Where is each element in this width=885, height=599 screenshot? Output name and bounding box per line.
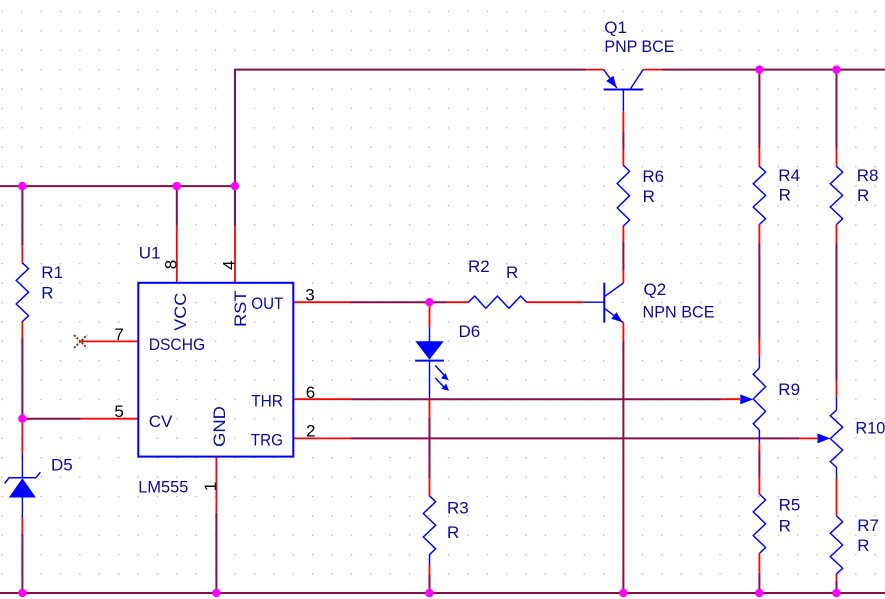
svg-text:R4: R4 [778,166,800,185]
svg-text:5: 5 [114,402,123,421]
svg-text:GND: GND [210,406,229,447]
svg-text:R: R [447,523,459,542]
svg-text:4: 4 [220,260,239,269]
svg-text:R: R [643,187,655,206]
svg-text:R: R [41,283,53,302]
svg-text:CV: CV [149,412,173,431]
svg-text:R8: R8 [857,166,879,185]
svg-text:2: 2 [306,421,315,440]
svg-text:3: 3 [305,286,314,305]
svg-text:PNP BCE: PNP BCE [604,37,674,56]
svg-text:D6: D6 [459,322,481,341]
svg-text:8: 8 [162,260,181,269]
svg-text:R: R [506,263,518,282]
svg-text:R10: R10 [855,418,885,437]
svg-text:R: R [857,536,869,555]
svg-text:D5: D5 [51,456,73,475]
svg-text:TRG: TRG [251,430,283,449]
svg-text:7: 7 [114,325,123,344]
svg-text:Q2: Q2 [644,280,667,299]
svg-text:DSCHG: DSCHG [149,335,206,354]
svg-text:Q1: Q1 [604,18,627,37]
svg-text:OUT: OUT [251,294,283,313]
svg-text:R9: R9 [778,380,800,399]
svg-text:U1: U1 [139,244,161,263]
svg-text:1: 1 [201,482,220,491]
svg-text:RST: RST [231,291,250,328]
svg-text:LM555: LM555 [138,477,188,496]
svg-text:R7: R7 [857,516,879,535]
svg-text:R: R [857,186,869,205]
svg-text:6: 6 [306,383,315,402]
svg-text:R: R [779,517,791,536]
svg-text:NPN BCE: NPN BCE [643,303,715,322]
svg-text:VCC: VCC [171,293,190,331]
svg-text:R1: R1 [41,263,63,282]
svg-text:R2: R2 [468,257,490,276]
svg-text:THR: THR [251,392,283,411]
svg-text:R: R [779,186,791,205]
svg-text:R6: R6 [642,167,664,186]
svg-text:R5: R5 [779,496,801,515]
svg-text:R3: R3 [447,499,469,518]
